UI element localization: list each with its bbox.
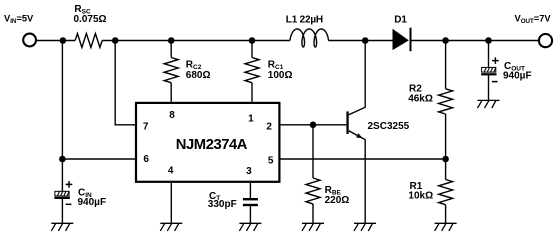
svg-text:46kΩ: 46kΩ [408, 94, 433, 105]
svg-text:940µF: 940µF [78, 197, 107, 208]
svg-text:220Ω: 220Ω [325, 195, 350, 206]
svg-text:VIN=5V: VIN=5V [4, 14, 34, 25]
svg-text:2: 2 [266, 121, 272, 132]
svg-text:3: 3 [246, 166, 252, 177]
svg-text:4: 4 [168, 166, 174, 177]
svg-text:330pF: 330pF [208, 199, 237, 210]
svg-text:100Ω: 100Ω [268, 70, 293, 81]
svg-text:L1 22µH: L1 22µH [286, 14, 323, 25]
svg-text:VOUT=7V: VOUT=7V [515, 14, 552, 25]
svg-text:7: 7 [143, 121, 149, 132]
svg-text:NJM2374A: NJM2374A [176, 137, 248, 153]
svg-text:0.075Ω: 0.075Ω [74, 14, 107, 25]
svg-text:680Ω: 680Ω [186, 70, 211, 81]
svg-text:940µF: 940µF [503, 70, 532, 81]
svg-text:5: 5 [268, 156, 274, 167]
svg-text:D1: D1 [394, 14, 407, 25]
svg-text:6: 6 [143, 154, 149, 165]
svg-text:8: 8 [169, 110, 175, 121]
svg-text:10kΩ: 10kΩ [408, 191, 433, 202]
svg-text:1: 1 [248, 113, 254, 124]
svg-text:2SC3255: 2SC3255 [368, 121, 410, 132]
